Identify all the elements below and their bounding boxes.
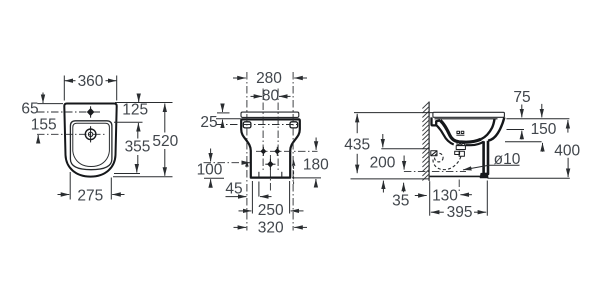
outer dash-dot vertical left: [246, 72, 248, 231]
svg-text:355: 355: [125, 139, 151, 156]
fixing hole right: [290, 122, 298, 128]
front outer profile: [488, 117, 504, 140]
svg-text:100: 100: [197, 161, 223, 178]
dimension 355: [137, 130, 139, 138]
dimension 25: [217, 112, 230, 114]
bidet base line: [430, 175, 481, 177]
svg-text:275: 275: [77, 187, 103, 204]
dimension 435: [356, 114, 358, 133]
svg-text:395: 395: [447, 204, 473, 221]
dimension 320: [234, 226, 247, 228]
rim bar side view: [433, 112, 505, 117]
tap hole centerline (dash-dot): [37, 111, 100, 113]
svg-text:360: 360: [78, 73, 104, 90]
flange level extension line: [381, 148, 428, 150]
svg-text:280: 280: [256, 70, 282, 87]
outer dash-dot vertical right: [292, 72, 294, 231]
drain flange: [455, 146, 466, 157]
dimension 150: [541, 104, 543, 118]
dimension 275: [69, 172, 71, 200]
inner dash-dot vertical right: [277, 89, 279, 171]
svg-text:80: 80: [262, 87, 280, 104]
dimension 180: [315, 138, 317, 150]
dimension 520: [115, 102, 173, 104]
svg-text:400: 400: [554, 143, 580, 160]
svg-text:65: 65: [21, 101, 38, 118]
inner dash-dot vertical left: [262, 89, 264, 171]
svg-text:150: 150: [531, 121, 557, 138]
dimension 35: [403, 183, 405, 193]
svg-text:155: 155: [31, 116, 57, 133]
rim bar: [241, 112, 299, 117]
lower fixing marker left: [261, 147, 266, 156]
basin back rim edge line: [435, 118, 498, 120]
dashed trap pipe: [433, 157, 461, 170]
basin inner rim: [70, 121, 112, 170]
svg-text:130: 130: [432, 187, 458, 204]
underside profile: [437, 125, 454, 144]
bidet outer rim outline: [64, 104, 116, 177]
dimension 360: [64, 76, 116, 101]
rim top extension line to wall: [354, 112, 433, 114]
svg-text:520: 520: [152, 133, 178, 150]
svg-text:250: 250: [258, 202, 284, 219]
svg-text:75: 75: [513, 89, 530, 106]
drain centerline (dash-dot): [37, 133, 107, 135]
center drain marker: [265, 159, 275, 170]
wall line: [428, 102, 430, 182]
drain hole: [85, 126, 96, 142]
small up arrow on left dash-dot: [245, 160, 249, 166]
svg-text:125: 125: [122, 102, 148, 119]
wall fixing bolt: [431, 151, 437, 156]
svg-text:25: 25: [200, 114, 217, 131]
svg-text:435: 435: [344, 137, 370, 154]
small up arrow on right dash-dot: [292, 160, 296, 166]
centerline vertical (dash-dot): [269, 155, 271, 192]
dimension 100: [210, 149, 212, 162]
lip top extension line: [506, 118, 569, 120]
floor line left of wall: [351, 178, 429, 180]
lower holes centerline horizontal (dash-dot): [256, 150, 318, 152]
underside extension line: [505, 141, 542, 143]
rear hook profile: [432, 117, 441, 125]
dimension 80: [251, 95, 263, 97]
bottom opening inner edges: [258, 172, 260, 177]
basin interior profile: [440, 120, 481, 142]
dimension 130: [429, 181, 431, 216]
tap hole marker: [88, 106, 94, 117]
lower fixing marker right: [275, 147, 280, 156]
drain stub below: [258, 182, 260, 197]
tap fitting marks: [456, 131, 464, 135]
fixing holes centerline horizontal (dash-dot): [216, 124, 298, 126]
basin inner offset line: [73, 123, 110, 151]
basin front inner profile: [481, 119, 495, 139]
dimension 395: [486, 181, 488, 216]
lip bottom extension line: [507, 129, 525, 131]
dimension 65: [37, 103, 63, 105]
dimension 280: [233, 77, 246, 79]
svg-text:35: 35: [392, 192, 409, 209]
svg-text:200: 200: [370, 154, 396, 171]
leg / foot: [484, 141, 488, 174]
dimension 125: [138, 94, 140, 102]
drain vertical dash-dot below: [458, 180, 460, 193]
tap hole hatched block: [457, 142, 464, 146]
underside front profile: [465, 142, 484, 146]
dimension 400: [567, 120, 569, 133]
drain centerline (dash-dot): [404, 170, 466, 172]
body outline: [241, 119, 300, 177]
floor line right of foot: [488, 177, 570, 179]
svg-text:45: 45: [225, 180, 242, 197]
basin front lip arc: [73, 151, 110, 167]
dimension 250: [251, 181, 253, 214]
wall hatching: [422, 102, 429, 181]
fixing hole left: [243, 122, 251, 128]
svg-text:320: 320: [258, 219, 284, 236]
dashed trap inlet circle: [435, 153, 444, 162]
svg-text:180: 180: [303, 157, 329, 174]
